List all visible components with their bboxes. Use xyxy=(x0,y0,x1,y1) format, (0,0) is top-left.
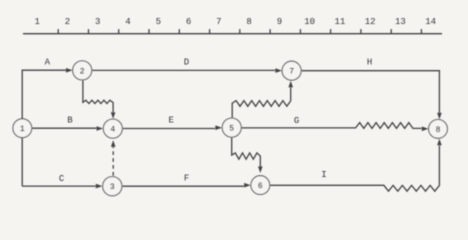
svg-text:C: C xyxy=(59,174,65,184)
svg-text:3: 3 xyxy=(110,183,115,192)
svg-text:5: 5 xyxy=(156,17,161,27)
svg-text:10: 10 xyxy=(304,17,315,27)
svg-text:8: 8 xyxy=(436,126,441,135)
svg-text:1: 1 xyxy=(20,125,25,134)
svg-text:8: 8 xyxy=(246,17,251,27)
svg-text:H: H xyxy=(367,57,372,67)
svg-text:F: F xyxy=(184,173,189,183)
svg-text:1: 1 xyxy=(34,17,39,27)
svg-text:9: 9 xyxy=(277,17,282,27)
svg-text:E: E xyxy=(168,116,173,126)
svg-text:4: 4 xyxy=(110,126,115,135)
svg-text:11: 11 xyxy=(334,17,345,27)
svg-text:5: 5 xyxy=(229,125,234,134)
svg-text:B: B xyxy=(67,115,73,125)
svg-text:7: 7 xyxy=(289,68,294,77)
svg-text:2: 2 xyxy=(80,67,85,76)
svg-text:D: D xyxy=(184,58,189,68)
svg-text:6: 6 xyxy=(186,17,191,27)
svg-text:2: 2 xyxy=(65,17,70,27)
svg-text:4: 4 xyxy=(125,17,130,27)
svg-text:12: 12 xyxy=(365,17,376,27)
svg-text:3: 3 xyxy=(95,17,100,27)
svg-text:7: 7 xyxy=(216,17,221,27)
svg-text:A: A xyxy=(45,58,51,68)
svg-text:G: G xyxy=(294,116,299,126)
svg-text:6: 6 xyxy=(258,182,263,191)
svg-text:I: I xyxy=(321,170,326,180)
svg-text:13: 13 xyxy=(395,17,406,27)
svg-text:14: 14 xyxy=(425,17,436,27)
